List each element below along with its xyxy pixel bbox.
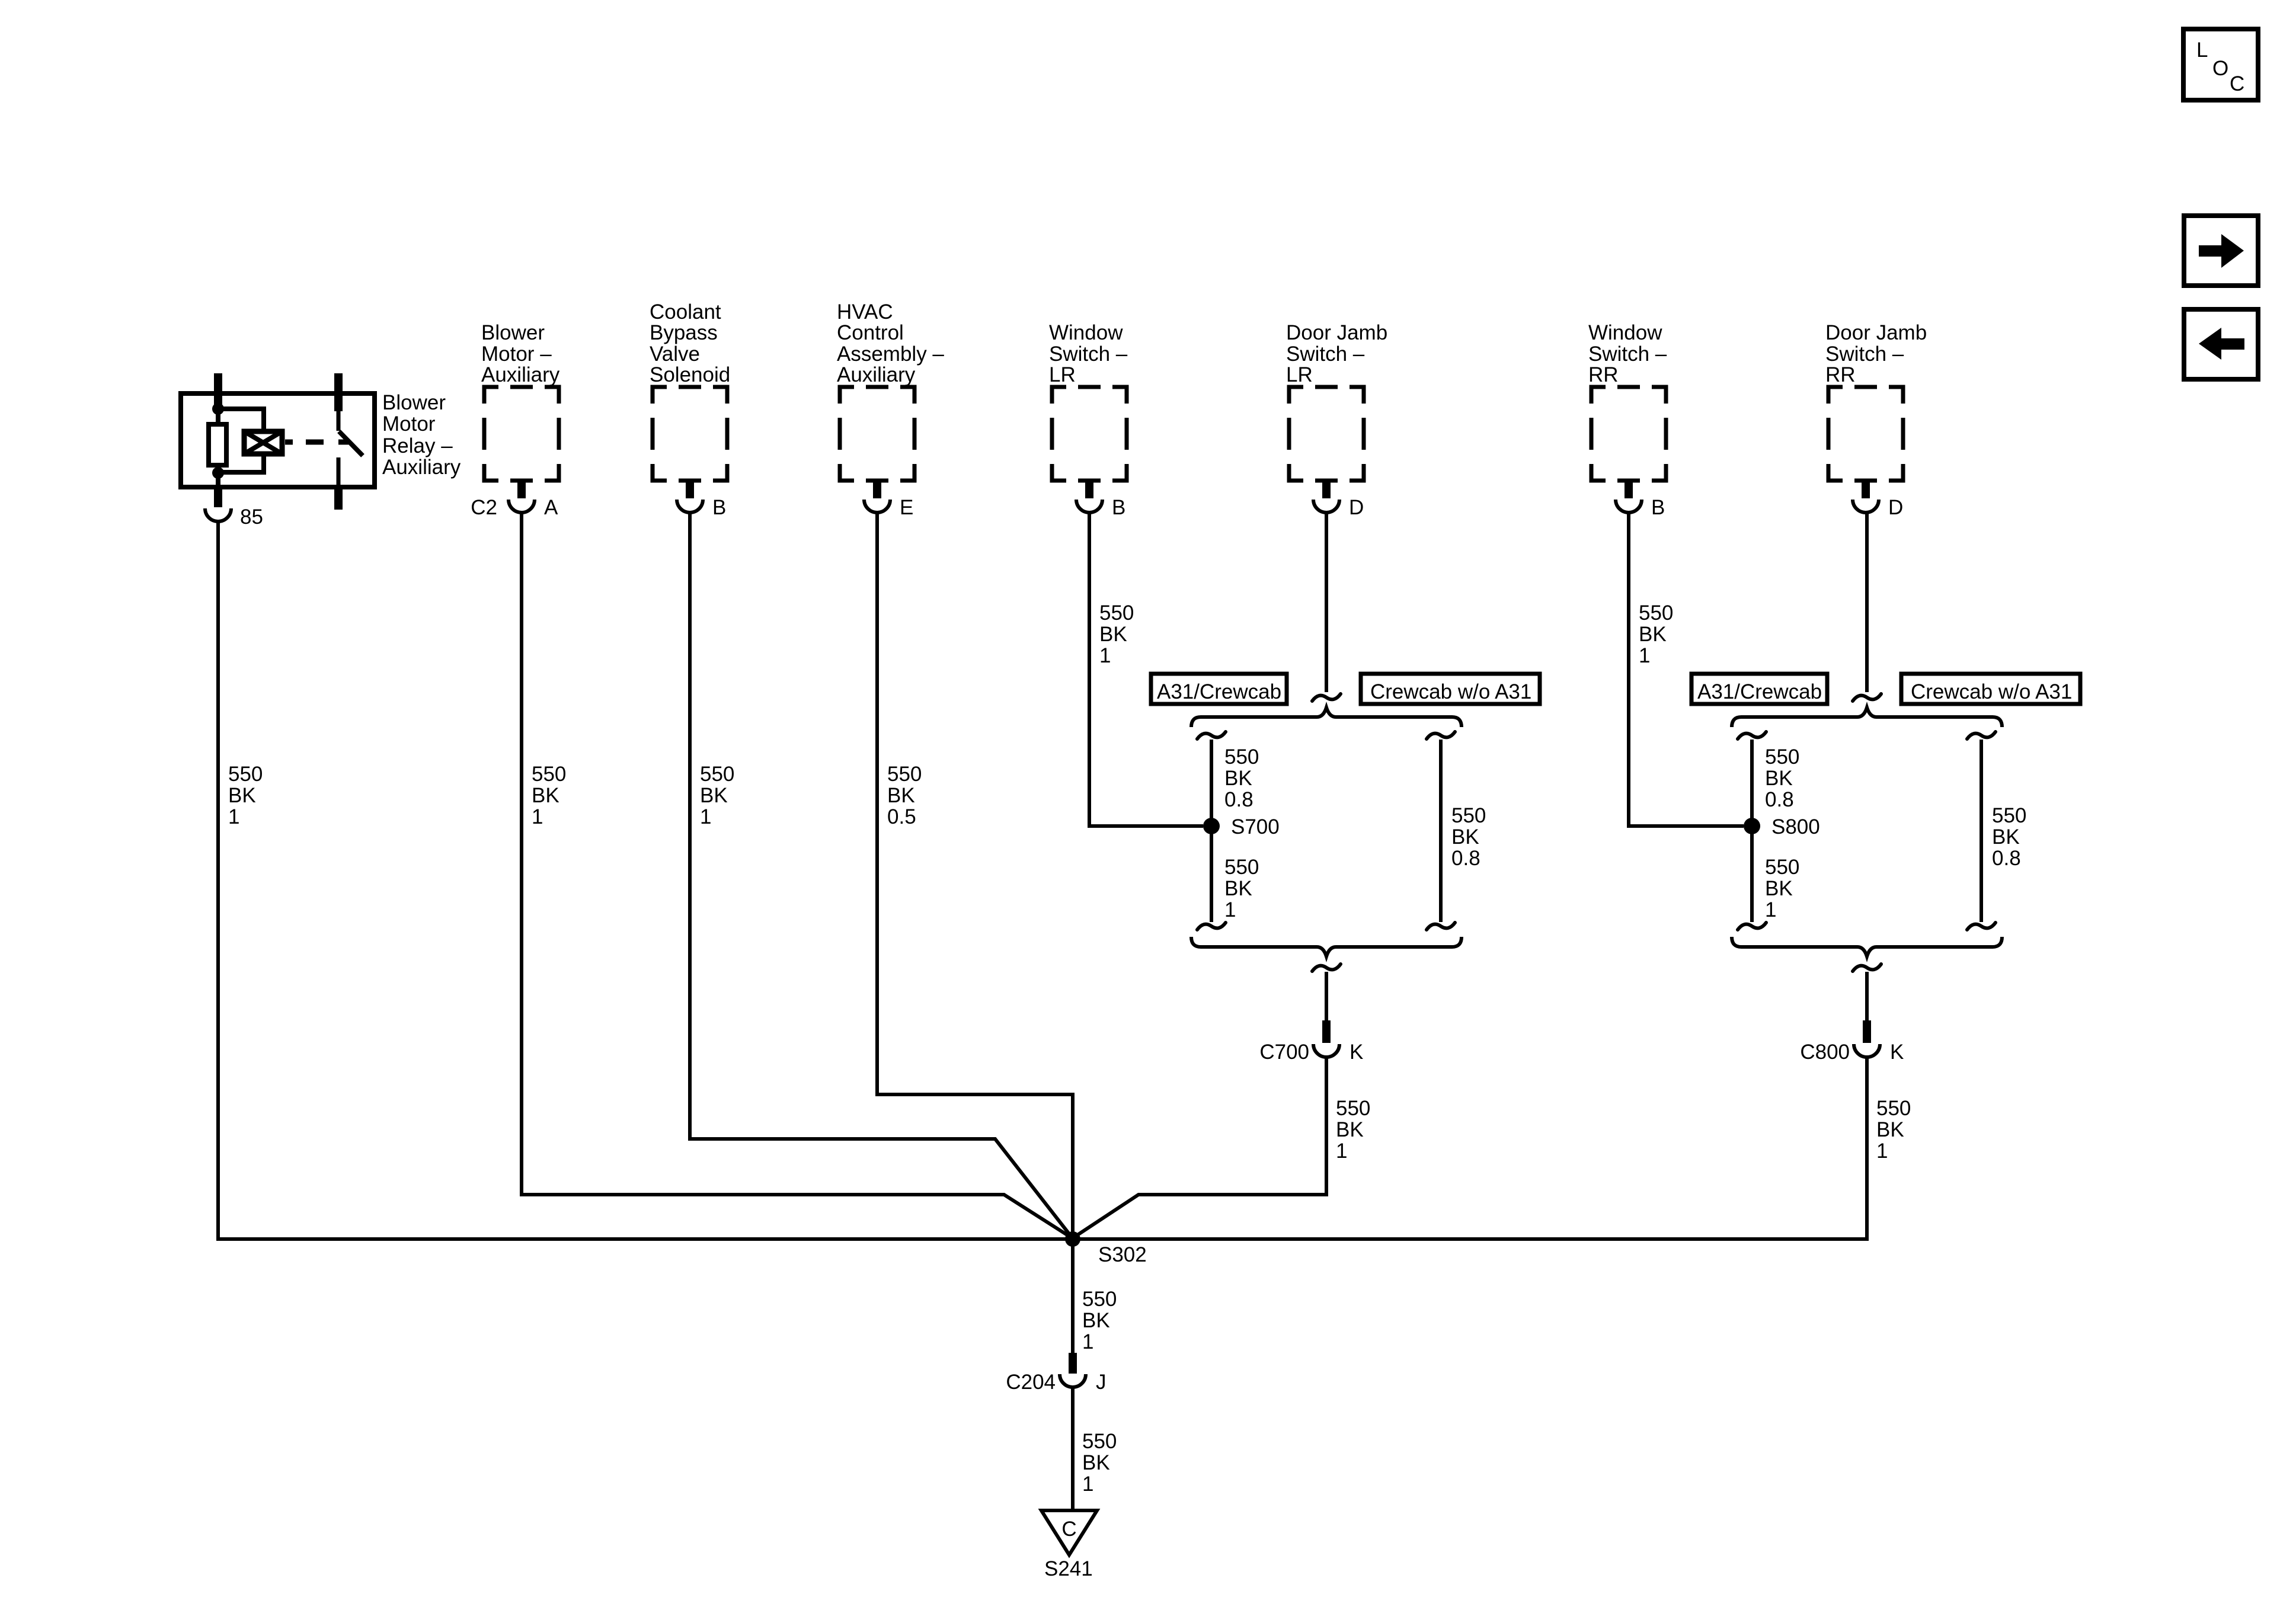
wire break bottom of w/o A31 option leg (S700) <box>1427 923 1455 930</box>
wire 550 BK 1 C800 to trunk <box>1867 1057 1911 1238</box>
svg-text:Window: Window <box>1049 321 1123 344</box>
component HVAC Control Assembly - Auxiliary <box>837 300 944 481</box>
svg-text:Window: Window <box>1588 321 1662 344</box>
svg-text:LR: LR <box>1286 363 1313 386</box>
svg-text:L: L <box>2196 39 2208 62</box>
splice S700 <box>1203 815 1280 838</box>
svg-text:K: K <box>1890 1041 1904 1064</box>
svg-text:550: 550 <box>1082 1288 1117 1311</box>
ground symbol S241 (triangle C) <box>1041 1510 1097 1580</box>
wire door jamb switch RR drop <box>1865 511 1869 692</box>
svg-text:Switch –: Switch – <box>1588 343 1667 366</box>
svg-text:Assembly –: Assembly – <box>837 343 944 366</box>
svg-text:BK: BK <box>1765 877 1793 900</box>
wire 550 BK 0.5 HVAC control to S302 <box>877 511 1073 1237</box>
svg-text:Crewcab w/o A31: Crewcab w/o A31 <box>1370 680 1531 703</box>
svg-text:0.8: 0.8 <box>1451 847 1480 870</box>
svg-text:0.8: 0.8 <box>1224 788 1253 811</box>
svg-text:Solenoid: Solenoid <box>650 363 730 386</box>
wire break bottom of w/o A31 option leg (S800) <box>1967 923 1996 930</box>
svg-text:Door Jamb: Door Jamb <box>1286 321 1387 344</box>
svg-text:S302: S302 <box>1098 1243 1147 1266</box>
connector pin A of Blower Motor - Auxiliary <box>471 481 558 519</box>
svg-text:BK: BK <box>1224 767 1252 790</box>
component Window Switch - RR <box>1588 321 1667 481</box>
svg-text:C2: C2 <box>471 496 497 519</box>
svg-text:1: 1 <box>700 805 711 828</box>
svg-text:1: 1 <box>1336 1140 1347 1163</box>
svg-text:Auxiliary: Auxiliary <box>837 363 916 386</box>
svg-text:A31/Crewcab: A31/Crewcab <box>1157 680 1281 703</box>
svg-text:550: 550 <box>1099 601 1134 625</box>
relay: Blower Motor Relay - Auxiliary <box>181 373 375 487</box>
component Coolant Bypass Valve Solenoid <box>650 300 730 481</box>
svg-text:BK: BK <box>1099 623 1127 646</box>
svg-text:Relay –: Relay – <box>382 434 453 457</box>
wire door jamb switch LR drop <box>1325 511 1328 692</box>
svg-text:BK: BK <box>1451 825 1479 849</box>
wire 550 BK 0.8 Crewcab w/o A31 option leg (S800) <box>1981 740 2026 922</box>
wire 550 BK 1 window switch LR to S700 <box>1089 511 1203 826</box>
svg-text:Control: Control <box>837 321 904 344</box>
svg-text:D: D <box>1349 496 1364 519</box>
svg-text:1: 1 <box>1082 1330 1093 1353</box>
svg-text:550: 550 <box>700 763 734 786</box>
svg-text:1: 1 <box>228 805 239 828</box>
relay pin 85 connector <box>205 486 263 529</box>
svg-text:550: 550 <box>532 763 566 786</box>
svg-text:Motor: Motor <box>382 412 436 436</box>
ground trunk wire S302 to C800 drop <box>216 1237 1869 1241</box>
svg-text:J: J <box>1096 1371 1107 1394</box>
svg-text:C: C <box>2230 72 2244 95</box>
svg-text:Switch –: Switch – <box>1049 343 1128 366</box>
svg-text:C800: C800 <box>1800 1041 1850 1064</box>
nav arrow right <box>2184 216 2258 286</box>
svg-text:550: 550 <box>1224 745 1259 769</box>
svg-text:550: 550 <box>1765 856 1799 879</box>
svg-text:Auxiliary: Auxiliary <box>382 456 461 479</box>
svg-text:550: 550 <box>887 763 922 786</box>
svg-text:BK: BK <box>532 784 559 807</box>
svg-text:A31/Crewcab: A31/Crewcab <box>1697 680 1822 703</box>
connector C204 pin J <box>1006 1353 1106 1394</box>
svg-text:1: 1 <box>1224 898 1236 921</box>
svg-text:550: 550 <box>1082 1430 1117 1453</box>
wire 550 BK 1 C204 to ground S241 <box>1073 1386 1117 1510</box>
svg-text:0.5: 0.5 <box>887 805 916 828</box>
svg-text:550: 550 <box>228 763 263 786</box>
svg-text:BK: BK <box>1876 1118 1904 1141</box>
option label box A31/Crewcab (S700) <box>1151 674 1287 704</box>
svg-text:Bypass: Bypass <box>650 321 718 344</box>
svg-text:0.8: 0.8 <box>1765 788 1794 811</box>
svg-text:Motor –: Motor – <box>481 343 552 366</box>
wire break symbol below bottom brace (S800) <box>1853 964 1881 971</box>
wire break top of w/o A31 option leg (S700) <box>1427 732 1455 739</box>
relay switch contact <box>285 410 363 510</box>
node: coil bottom junction <box>212 467 224 479</box>
svg-text:BK: BK <box>1082 1309 1110 1332</box>
svg-text:Door Jamb: Door Jamb <box>1825 321 1927 344</box>
wire 550 BK 0.8 Crewcab w/o A31 option leg (S700) <box>1441 740 1486 922</box>
svg-text:BK: BK <box>1765 767 1793 790</box>
svg-text:1: 1 <box>1765 898 1776 921</box>
wire break top of A31 option leg (S700) <box>1197 732 1226 739</box>
svg-text:550: 550 <box>1992 804 2026 827</box>
svg-text:O: O <box>2212 57 2228 80</box>
svg-text:B: B <box>712 496 726 519</box>
svg-text:BK: BK <box>1224 877 1252 900</box>
svg-text:Crewcab w/o A31: Crewcab w/o A31 <box>1911 680 2072 703</box>
svg-text:Auxiliary: Auxiliary <box>481 363 560 386</box>
svg-text:C: C <box>1061 1518 1076 1541</box>
svg-text:1: 1 <box>1082 1473 1093 1496</box>
svg-text:1: 1 <box>1099 644 1111 667</box>
connector pin E of HVAC Control Assembly - Auxiliary <box>864 481 913 519</box>
wire break top of A31 option leg (S800) <box>1738 732 1766 739</box>
wire 550 BK 0.8 A31 option leg into S700 <box>1211 740 1259 922</box>
svg-text:550: 550 <box>1224 856 1259 879</box>
svg-text:1: 1 <box>532 805 543 828</box>
svg-text:Coolant: Coolant <box>650 300 721 324</box>
connector pin D of Door Jamb Switch - RR <box>1853 481 1903 519</box>
svg-text:C700: C700 <box>1259 1041 1309 1064</box>
wire break symbol below bottom brace (S700) <box>1312 964 1341 971</box>
page symbol LOC box <box>2183 29 2258 100</box>
component Window Switch - LR <box>1049 321 1128 481</box>
svg-text:RR: RR <box>1825 363 1856 386</box>
connector pin B of Coolant Bypass Valve Solenoid <box>677 481 726 519</box>
node: coil top junction <box>212 403 224 415</box>
svg-text:D: D <box>1888 496 1903 519</box>
wire break symbol above top brace (S700) <box>1312 694 1341 701</box>
wire break bottom of A31 option leg (S700) <box>1197 923 1226 930</box>
svg-text:K: K <box>1350 1041 1363 1064</box>
connector C700 pin K <box>1259 972 1363 1064</box>
svg-text:BK: BK <box>1336 1118 1364 1141</box>
svg-text:Switch –: Switch – <box>1825 343 1904 366</box>
splice S302 <box>1065 1231 1147 1266</box>
svg-text:550: 550 <box>1765 745 1799 769</box>
wire 550 BK 1 relay pin85 to S302 trunk <box>218 520 263 1237</box>
nav arrow left <box>2184 309 2258 379</box>
svg-text:B: B <box>1651 496 1665 519</box>
svg-text:Valve: Valve <box>650 343 700 366</box>
wire break bottom of A31 option leg (S800) <box>1738 923 1766 930</box>
svg-text:B: B <box>1112 496 1125 519</box>
svg-text:1: 1 <box>1639 644 1650 667</box>
relay label <box>382 391 461 479</box>
bottom option brace (S800) <box>1732 937 2002 956</box>
wire 550 BK 1 blower motor aux to S302 <box>522 511 1073 1238</box>
wire break symbol above top brace (S800) <box>1853 694 1881 701</box>
component Door Jamb Switch - LR <box>1286 321 1387 481</box>
svg-text:550: 550 <box>1451 804 1486 827</box>
svg-text:BK: BK <box>228 784 256 807</box>
svg-text:Blower: Blower <box>481 321 545 344</box>
wire 550 BK 1 coolant valve to S302 <box>690 511 1073 1238</box>
svg-text:550: 550 <box>1336 1097 1370 1120</box>
wire 550 BK 0.8 A31 option leg into S800 <box>1752 740 1799 922</box>
component Door Jamb Switch - RR <box>1825 321 1927 481</box>
svg-text:0.8: 0.8 <box>1992 847 2021 870</box>
option label box A31/Crewcab (S800) <box>1691 674 1827 704</box>
svg-text:A: A <box>544 496 558 519</box>
svg-text:BK: BK <box>700 784 728 807</box>
svg-text:Switch –: Switch – <box>1286 343 1365 366</box>
svg-text:Blower: Blower <box>382 391 446 414</box>
option label box Crewcab w/o A31 (S700) <box>1361 674 1540 704</box>
svg-text:RR: RR <box>1588 363 1619 386</box>
svg-text:BK: BK <box>887 784 915 807</box>
connector pin B of Window Switch - RR <box>1616 481 1665 519</box>
relay coil branch <box>218 409 282 472</box>
svg-text:550: 550 <box>1876 1097 1911 1120</box>
splice S800 <box>1744 815 1820 838</box>
svg-text:HVAC: HVAC <box>837 300 893 324</box>
top option brace (S700) <box>1191 708 1462 727</box>
svg-text:550: 550 <box>1639 601 1673 625</box>
connector pin D of Door Jamb Switch - LR <box>1313 481 1364 519</box>
svg-text:S800: S800 <box>1771 815 1820 838</box>
top option brace (S800) <box>1732 708 2002 727</box>
svg-text:85: 85 <box>240 505 263 529</box>
option label box Crewcab w/o A31 (S800) <box>1901 674 2080 704</box>
svg-text:1: 1 <box>1876 1140 1888 1163</box>
wire 550 BK 1 C700 to S302 <box>1074 1057 1370 1237</box>
svg-text:S241: S241 <box>1044 1557 1093 1580</box>
wire break top of w/o A31 option leg (S800) <box>1967 732 1996 739</box>
component Blower Motor - Auxiliary <box>481 321 560 481</box>
svg-text:BK: BK <box>1639 623 1667 646</box>
svg-text:BK: BK <box>1082 1451 1110 1474</box>
connector pin B of Window Switch - LR <box>1076 481 1125 519</box>
svg-text:C204: C204 <box>1006 1371 1056 1394</box>
svg-text:E: E <box>900 496 913 519</box>
relay resistor <box>209 409 226 487</box>
svg-text:BK: BK <box>1992 825 2020 849</box>
bottom option brace (S700) <box>1191 937 1462 956</box>
svg-text:LR: LR <box>1049 363 1076 386</box>
connector C800 pin K <box>1800 972 1904 1064</box>
wire 550 BK 1 S302 to C204 <box>1073 1239 1117 1354</box>
wire 550 BK 1 window switch RR to S800 <box>1629 511 1744 826</box>
svg-text:S700: S700 <box>1231 815 1280 838</box>
